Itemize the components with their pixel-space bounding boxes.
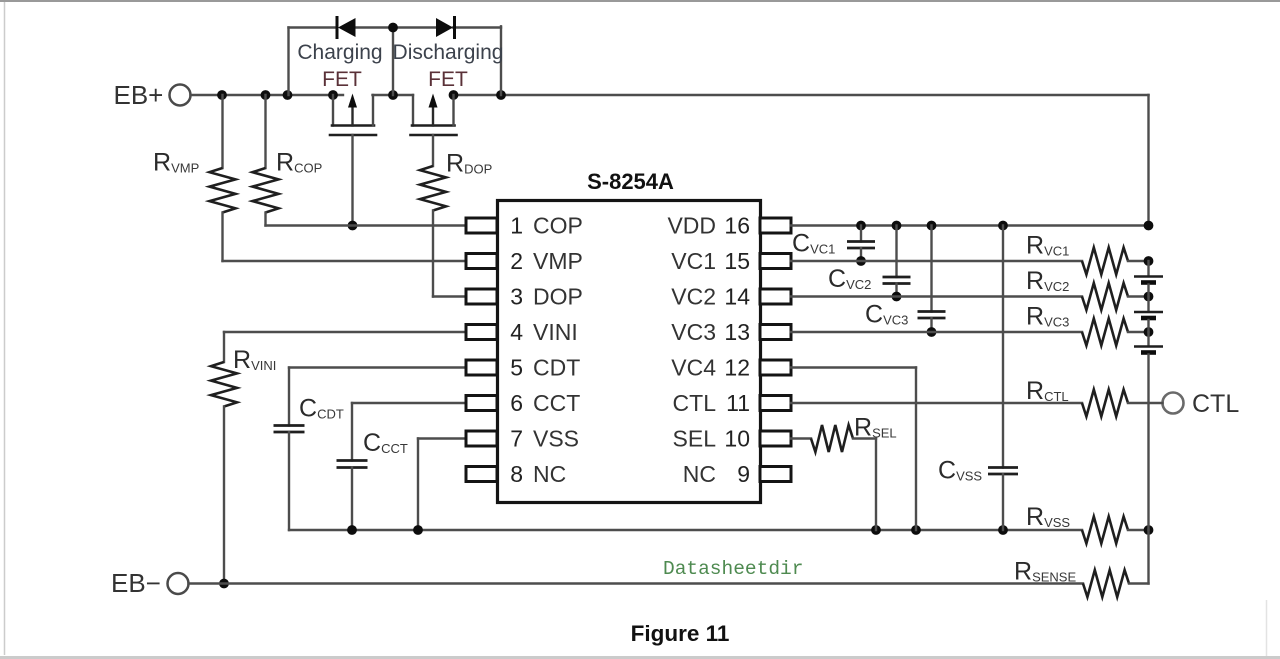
transistor Q2 discharging FET drain lead <box>412 95 414 126</box>
transistor Q1 channel bar <box>332 124 374 127</box>
resistor R_VC1 <box>1082 248 1128 275</box>
wire battery segment VC3-cell3 <box>1147 332 1149 346</box>
node R_VINI / EB- junction <box>219 579 229 589</box>
svg-text:CCT: CCT <box>533 390 580 416</box>
node R_VSS/battery-line junction <box>1144 525 1154 535</box>
svg-text:8: 8 <box>510 461 523 487</box>
battery cell 1 <box>1134 275 1163 277</box>
svg-text:2: 2 <box>510 248 523 274</box>
svg-text:VDD: VDD <box>667 213 716 239</box>
EB- terminal <box>168 573 189 594</box>
op-amp U1 S-8254A IC body <box>498 201 761 503</box>
wire top rail segment 3 <box>453 26 501 28</box>
node pin7/VSS junction <box>413 525 423 535</box>
resistor R_VSS <box>1082 517 1128 544</box>
wire VMP line to pin 2 <box>223 260 467 262</box>
wire VSS bottom line <box>289 529 1082 531</box>
transistor Q1 charging FET drain lead <box>332 95 334 126</box>
wire top-rail left drop <box>287 28 289 96</box>
svg-text:NC: NC <box>683 461 716 487</box>
resistor R_VINI <box>223 332 225 362</box>
svg-text:1: 1 <box>510 213 523 239</box>
node C_VC3/VC3 junction <box>927 327 937 337</box>
wire DOP line to pin 3 <box>433 295 466 297</box>
transistor Q2 gate bar <box>411 134 457 137</box>
svg-text:Discharging: Discharging <box>393 41 504 64</box>
svg-text:10: 10 <box>724 426 750 452</box>
capacitor C_VC3 <box>930 226 932 312</box>
transistor Q1 source lead <box>372 95 374 126</box>
wire SEL line <box>791 437 811 439</box>
capacitor C_VC2 <box>895 226 897 278</box>
pin 7 VSS <box>466 431 497 446</box>
wire VDD line pin16 to battery top <box>791 224 1149 226</box>
capacitor C_CDT <box>288 368 290 426</box>
node VDD/C_VC1 <box>856 221 866 231</box>
pin 10 SEL <box>760 431 791 446</box>
node EB+ R_COP junction <box>261 90 271 100</box>
battery cell 2 <box>1134 311 1163 313</box>
diode D1 charging (triangle) <box>338 18 356 37</box>
node charging FET drain <box>328 90 338 100</box>
node C_CCT/VSS junction <box>347 525 357 535</box>
node VDD/C_VC3 <box>927 221 937 231</box>
resistor R_CTL <box>1082 390 1128 417</box>
wire battery stack segment VC1-cell1 <box>1147 261 1149 276</box>
wire battery stack top drop from EB+ rail <box>1147 95 1149 226</box>
battery cell 3 <box>1134 345 1163 347</box>
diode D1 charging (cathode bar) <box>336 16 339 39</box>
wire battery segment cell2-VC3 <box>1147 320 1149 332</box>
svg-text:4: 4 <box>510 319 523 345</box>
svg-text:3: 3 <box>510 284 523 310</box>
wire CDT line to pin 5 <box>289 366 466 368</box>
wire VC2 line <box>791 295 1082 297</box>
resistor R_SENSE <box>1083 570 1129 597</box>
capacitor C_CCT <box>351 403 353 461</box>
wire battery segment cell1-VC2 <box>1147 285 1149 297</box>
transistor Q1 body arrow <box>351 102 353 126</box>
node VDD/C_VC2 <box>892 221 902 231</box>
wire COP line to pin 1 <box>266 224 467 226</box>
pin 6 CCT <box>466 396 497 411</box>
wire VSS pin 7 drop <box>418 437 466 439</box>
resistor R_VMP <box>221 95 223 168</box>
svg-text:CTL: CTL <box>673 390 717 416</box>
capacitor C_VSS <box>1002 226 1004 468</box>
svg-text:5: 5 <box>510 355 523 381</box>
wire Q2 gate down to R_DOP <box>432 135 434 166</box>
diode D2 discharging (cathode bar) <box>453 16 456 39</box>
wire top rail segment 1 <box>289 26 338 28</box>
svg-text:12: 12 <box>724 355 750 381</box>
node VC4/VSS junction <box>911 525 921 535</box>
resistor R_VC3 <box>1082 319 1128 346</box>
wire EB+ rail mid <box>373 94 414 96</box>
transistor Q1 gate bar <box>330 134 376 137</box>
node VC3/battery junction <box>1144 327 1154 337</box>
node EB+ diode-box junction <box>283 90 293 100</box>
CTL terminal <box>1163 393 1184 414</box>
pin 5 CDT <box>466 360 497 375</box>
transistor Q2 body arrow <box>432 102 434 126</box>
svg-text:VINI: VINI <box>533 319 578 345</box>
transistor Q2 source lead <box>452 95 454 126</box>
svg-text:COP: COP <box>533 213 583 239</box>
resistor R_COP <box>264 95 266 168</box>
svg-text:Datasheetdir: Datasheetdir <box>663 558 803 580</box>
wire EB+ rail left <box>191 94 344 96</box>
pin 1 COP <box>466 218 497 233</box>
resistor R_DOP <box>420 166 446 211</box>
node gate/COP junction <box>348 221 358 231</box>
svg-text:SEL: SEL <box>673 426 717 452</box>
transistor Q2 channel bar <box>412 124 455 127</box>
node discharging FET source <box>449 90 459 100</box>
node C_VSS/VSS junction <box>998 525 1008 535</box>
wire VC4 line <box>791 366 916 368</box>
svg-text:EB+: EB+ <box>114 80 164 110</box>
wire R_VSS to R_SENSE vertical <box>1147 530 1149 584</box>
pin 3 DOP <box>466 289 497 304</box>
wire CCT line to pin 6 <box>352 402 466 404</box>
svg-text:VSS: VSS <box>533 426 579 452</box>
wire Q1 gate to COP line <box>351 135 353 226</box>
wire EB- line <box>189 582 1084 584</box>
svg-text:13: 13 <box>724 319 750 345</box>
wire battery segment VC2-cell2 <box>1147 297 1149 312</box>
svg-text:15: 15 <box>724 248 750 274</box>
svg-text:VC2: VC2 <box>671 284 716 310</box>
wire VINI line to pin 4 <box>224 331 466 333</box>
pin 14 VC2 <box>760 289 791 304</box>
node VC2/battery junction <box>1144 292 1154 302</box>
svg-text:S-8254A: S-8254A <box>587 169 674 194</box>
svg-text:9: 9 <box>737 461 750 487</box>
node top rail mid junction <box>388 23 398 33</box>
svg-text:VMP: VMP <box>533 248 583 274</box>
svg-text:NC: NC <box>533 461 566 487</box>
pin 2 VMP <box>466 254 497 269</box>
node VC1/battery junction <box>1144 256 1154 266</box>
pin 15 VC1 <box>760 254 791 269</box>
svg-text:CDT: CDT <box>533 355 580 381</box>
node R_SEL/VSS junction <box>871 525 881 535</box>
wire EB+ rail right <box>454 94 1149 96</box>
svg-text:Charging: Charging <box>297 41 382 64</box>
capacitor C_VC1 <box>860 226 862 242</box>
wire VC1 line <box>791 260 1082 262</box>
wire top-rail right drop <box>500 26 502 95</box>
svg-text:11: 11 <box>726 390 750 416</box>
pin 16 VDD <box>760 218 791 233</box>
wire top-rail mid drop <box>392 28 394 96</box>
svg-text:FET: FET <box>428 68 468 91</box>
svg-text:FET: FET <box>322 68 362 91</box>
svg-text:6: 6 <box>510 390 523 416</box>
node VDD/battery junction <box>1144 221 1154 231</box>
resistor R_SEL <box>811 425 853 452</box>
pin 13 VC3 <box>760 325 791 340</box>
svg-text:EB−: EB− <box>111 568 161 598</box>
wire battery bottom down to R_VSS junction <box>1147 355 1149 531</box>
wire VC4 drop to VSS line <box>915 368 917 531</box>
node VDD/C_VSS <box>998 221 1008 231</box>
node EB+ R_VMP junction <box>217 90 227 100</box>
pin 9 NC <box>760 467 791 482</box>
wire top rail segment 2 <box>355 26 436 28</box>
pin 4 VINI <box>466 325 497 340</box>
svg-text:Figure 11: Figure 11 <box>631 621 730 646</box>
pin 8 NC <box>466 467 497 482</box>
EB+ terminal <box>170 85 191 106</box>
node FET midpoint <box>388 90 398 100</box>
svg-text:7: 7 <box>510 426 523 452</box>
pin 12 VC4 <box>760 360 791 375</box>
node C_VC1/VC1 junction <box>856 256 866 266</box>
resistor R_VC2 <box>1082 283 1128 310</box>
svg-text:DOP: DOP <box>533 284 583 310</box>
node C_VC2/VC2 junction <box>892 292 902 302</box>
diode D2 discharging (triangle) <box>436 18 453 37</box>
node top-rail right junction <box>496 90 506 100</box>
svg-text:14: 14 <box>724 284 750 310</box>
wire VC3 line <box>791 331 1082 333</box>
svg-text:VC3: VC3 <box>671 319 716 345</box>
svg-text:VC4: VC4 <box>671 355 716 381</box>
svg-text:VC1: VC1 <box>671 248 716 274</box>
wire CTL line <box>791 402 1082 404</box>
svg-text:CTL: CTL <box>1192 390 1239 418</box>
svg-text:16: 16 <box>724 213 750 239</box>
wire R_SEL drop to VSS line <box>875 439 877 531</box>
pin 11 CTL <box>760 396 791 411</box>
